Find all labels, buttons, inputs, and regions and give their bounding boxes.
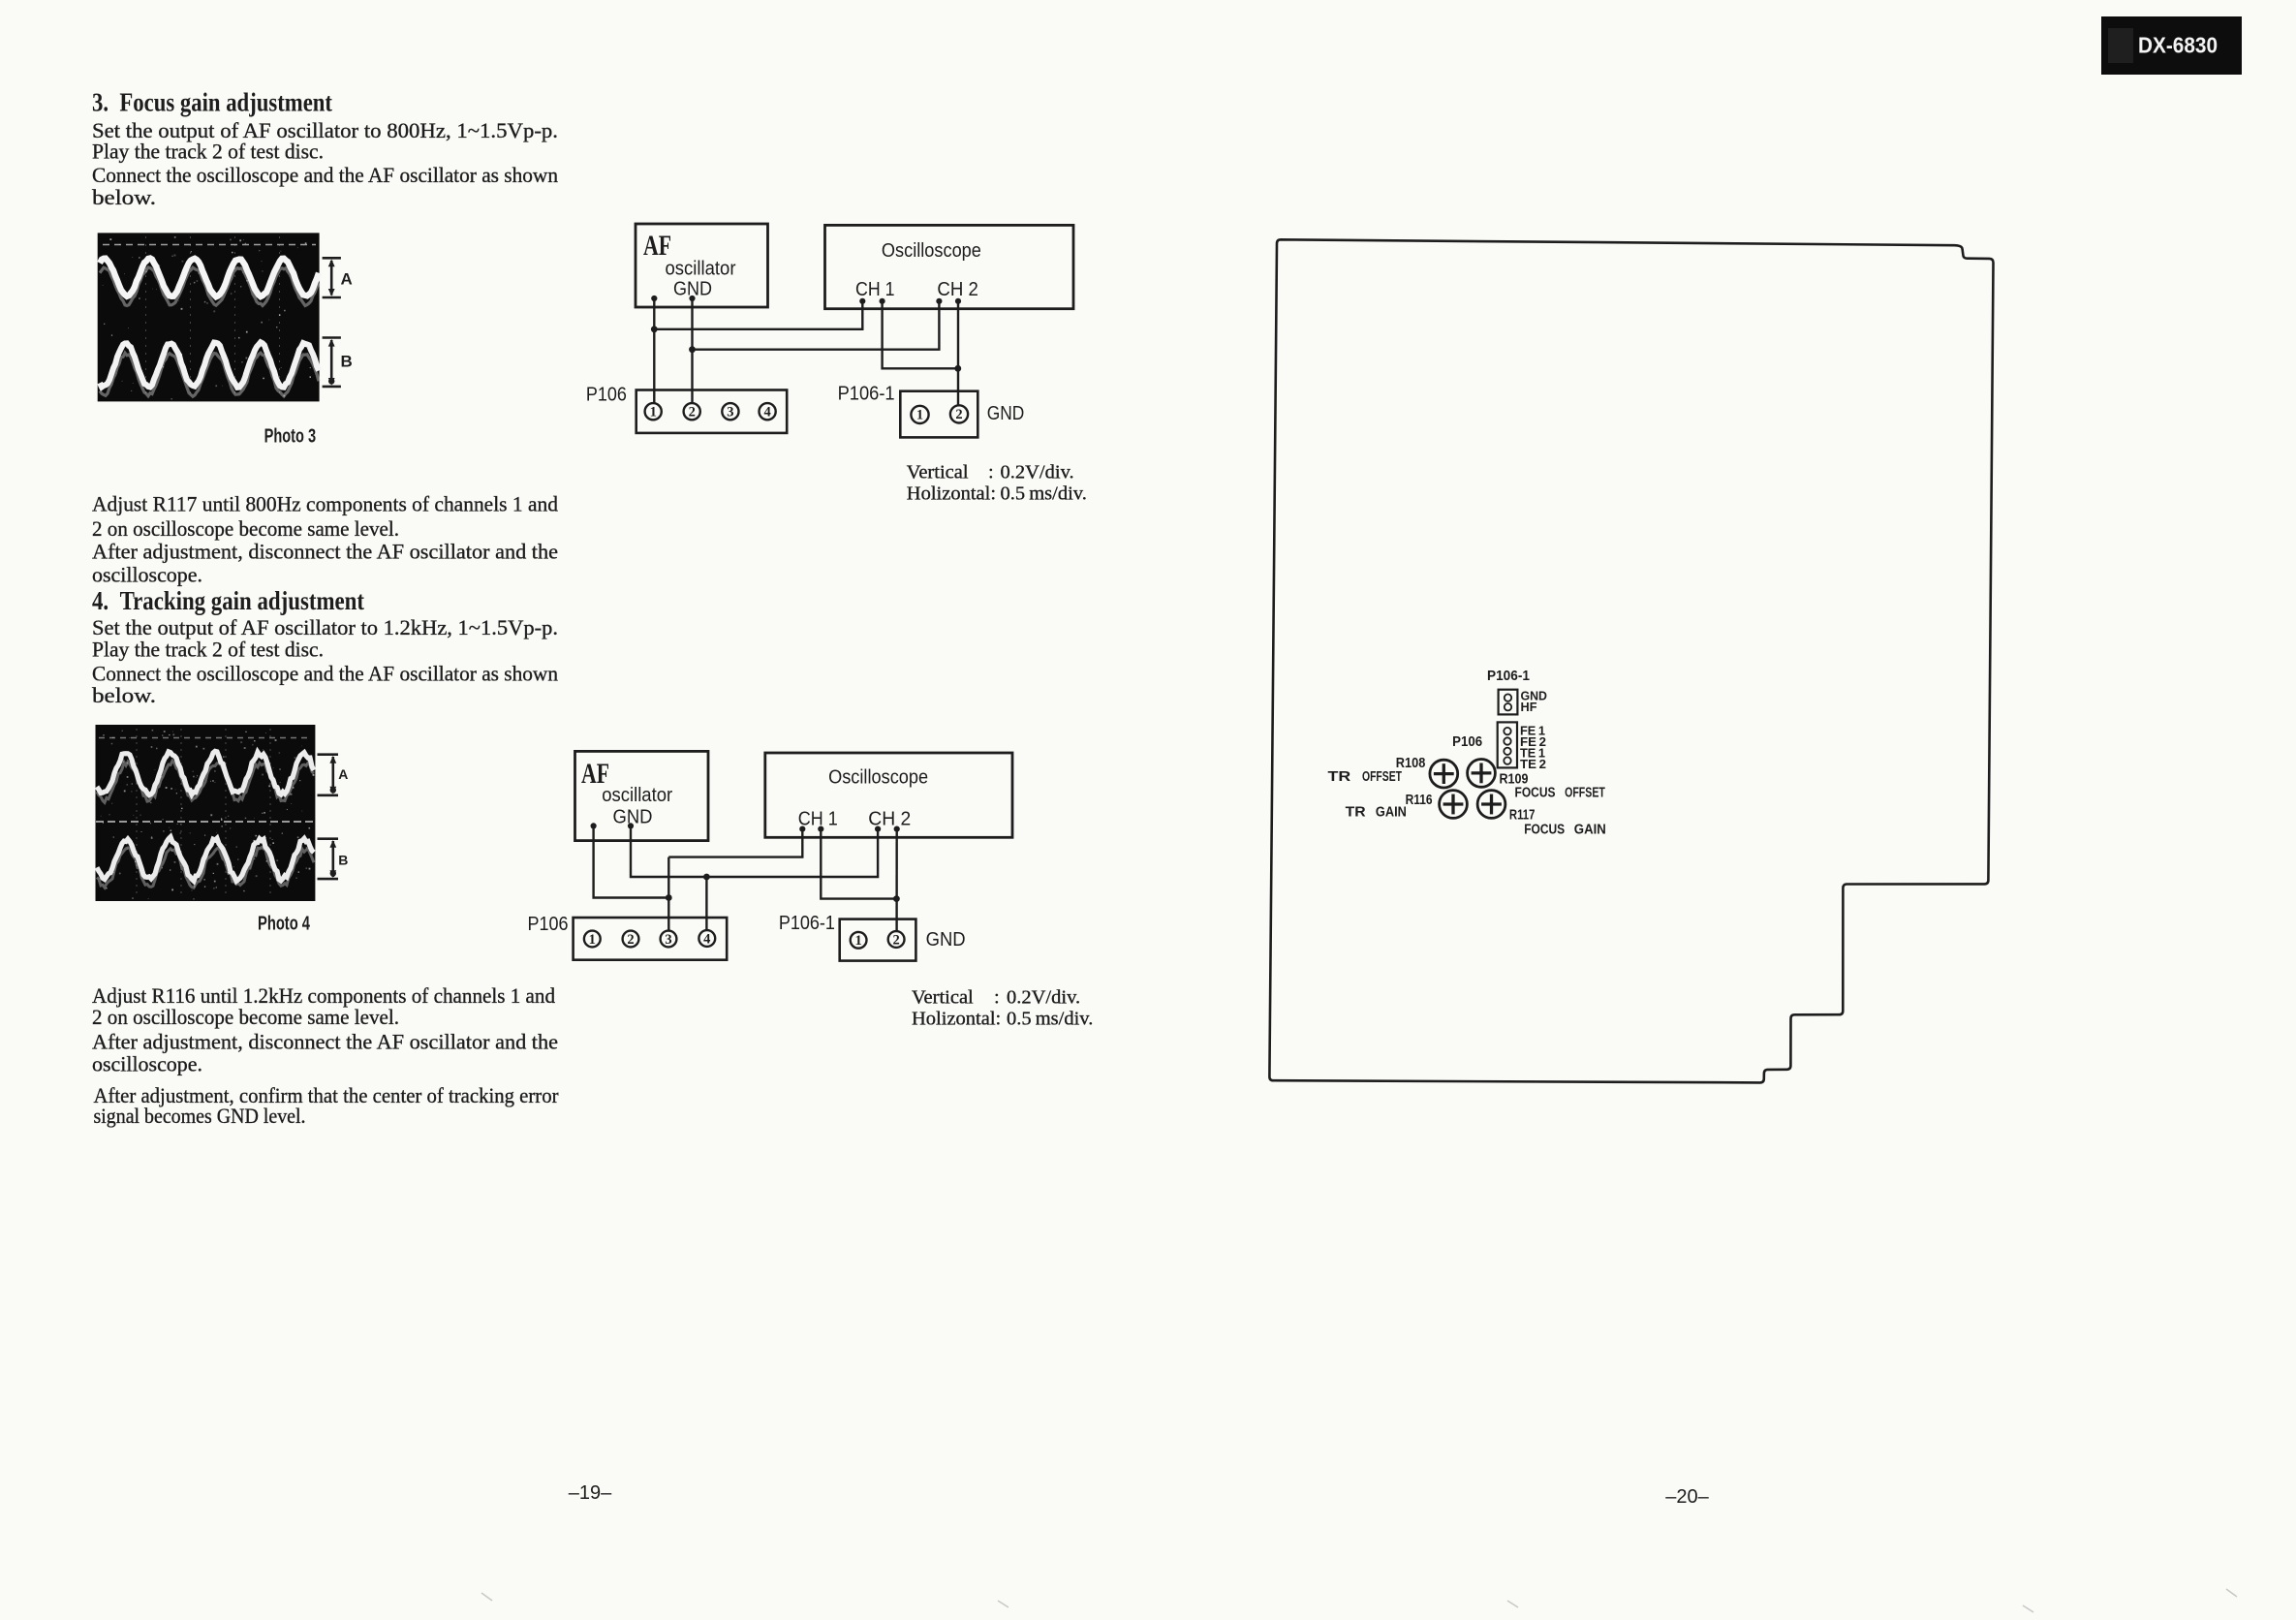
label FOCUS GAIN	[1524, 823, 1606, 838]
svg-text:1: 1	[589, 932, 596, 948]
svg-text:Oscilloscope: Oscilloscope	[882, 239, 981, 262]
svg-text:2 on oscilloscope become same: 2 on oscilloscope become same level.	[92, 1005, 399, 1029]
wire CH1 pin2 to junction (diagram 1)	[883, 301, 958, 369]
svg-text:Oscilloscope: Oscilloscope	[828, 766, 928, 789]
svg-text:4. Tracking gain adjustment: 4. Tracking gain adjustment	[92, 586, 364, 615]
svg-text:CH 2: CH 2	[937, 278, 978, 300]
svg-text:P106: P106	[1452, 734, 1482, 750]
svg-text:below.: below.	[92, 185, 156, 209]
settings text (diagram 2)	[912, 987, 1093, 1030]
svg-text:Vertical: Vertical	[907, 462, 969, 483]
svg-text:oscilloscope.: oscilloscope.	[92, 1052, 202, 1076]
svg-text:P106-1: P106-1	[1487, 669, 1530, 684]
wire AF GND to CH2 (diagram 2)	[631, 826, 878, 880]
svg-text:P106: P106	[586, 384, 627, 406]
svg-text::: :	[988, 462, 994, 483]
svg-text:2: 2	[892, 932, 899, 948]
svg-text:1: 1	[916, 408, 923, 423]
dimension bracket B photo 4	[318, 839, 339, 879]
svg-text:oscilloscope.: oscilloscope.	[92, 563, 202, 587]
label FOCUS OFFSET	[1515, 785, 1605, 800]
connector P106 (diagram 1)	[636, 390, 788, 433]
settings text (diagram 1)	[907, 462, 1087, 505]
wire riser to CH1 (diagram 2)	[668, 829, 802, 857]
svg-text:TR: TR	[1328, 769, 1351, 785]
svg-text:GAIN: GAIN	[1376, 805, 1407, 821]
svg-text:–19–: –19–	[569, 1482, 612, 1504]
Oscilloscope box (diagram 2)	[765, 753, 1012, 837]
svg-text:P106-1: P106-1	[779, 912, 835, 934]
scan marks	[481, 1589, 2237, 1612]
svg-text:4: 4	[763, 405, 770, 421]
svg-text:GAIN: GAIN	[1574, 823, 1606, 838]
svg-text:oscillator: oscillator	[666, 258, 736, 280]
connector P106-1 (board)	[1499, 690, 1518, 715]
svg-text:HF: HF	[1521, 700, 1537, 714]
connector P106 (diagram 2)	[574, 918, 728, 960]
svg-text:A: A	[341, 270, 353, 289]
svg-text:1: 1	[854, 933, 861, 949]
svg-text:0.2V/div.: 0.2V/div.	[1007, 987, 1080, 1009]
potentiometer R116 TR GAIN	[1440, 791, 1468, 819]
svg-text:Connect the oscilloscope and t: Connect the oscilloscope and the AF osci…	[92, 662, 558, 686]
AF oscillator box (diagram 1)	[636, 224, 768, 307]
svg-text:GND: GND	[987, 402, 1025, 424]
svg-text:Play the track 2 of test disc.: Play the track 2 of test disc.	[92, 140, 324, 164]
svg-text::: :	[994, 987, 1000, 1009]
svg-text:0.5 ms/div.: 0.5 ms/div.	[1007, 1009, 1093, 1030]
svg-text:FOCUS: FOCUS	[1524, 823, 1565, 838]
svg-text:P106: P106	[528, 913, 569, 935]
svg-text:3. Focus gain adjustment: 3. Focus gain adjustment	[92, 88, 332, 117]
potentiometer R109 FOCUS OFFSET	[1468, 760, 1496, 788]
wire junction to P106 pin4 (diagram 2)	[705, 877, 707, 930]
svg-text:1: 1	[650, 405, 657, 421]
wire CH1/P106 pin3 riser (diagram 2)	[666, 857, 672, 931]
svg-text:DX-6830: DX-6830	[2138, 33, 2218, 58]
AF oscillator box (diagram 2)	[575, 751, 709, 840]
wire AF pin1 to P106 pin1 (diagram 1)	[651, 298, 658, 403]
svg-text:Set the output of AF oscillato: Set the output of AF oscillator to 1.2kH…	[92, 615, 558, 639]
svg-text:Adjust R117 until 800Hz compon: Adjust R117 until 800Hz components of ch…	[92, 492, 558, 516]
wire CH1 pin2 to junction (diagram 2)	[821, 829, 896, 899]
svg-text:oscillator: oscillator	[602, 784, 672, 806]
svg-text:Holizontal:: Holizontal:	[907, 483, 996, 505]
svg-text:2: 2	[689, 405, 696, 421]
label TR OFFSET	[1328, 769, 1403, 785]
wire junction to CH1 (diagram 1)	[654, 301, 862, 329]
svg-text:R117: R117	[1509, 807, 1536, 823]
svg-text:GND: GND	[926, 928, 966, 950]
PCB board outline	[1269, 239, 1993, 1082]
svg-text:0.5 ms/div.: 0.5 ms/div.	[1001, 483, 1087, 505]
potentiometer R108 TR OFFSET	[1430, 760, 1458, 788]
dimension bracket A photo 4	[318, 755, 339, 795]
wire CH2 pin2 to P106-1 pin2 (diagram 1)	[954, 301, 961, 406]
svg-text:B: B	[341, 353, 353, 371]
wire AF pin1 to junction (diagram 2)	[594, 826, 669, 897]
svg-text:Photo 3: Photo 3	[264, 426, 317, 448]
wire CH2 pin2 to P106-1 pin2 (diagram 2)	[893, 829, 900, 931]
svg-text:signal becomes GND level.: signal becomes GND level.	[94, 1104, 306, 1128]
svg-text:–20–: –20–	[1665, 1486, 1709, 1508]
svg-text:CH 1: CH 1	[855, 278, 895, 300]
svg-text:2: 2	[627, 932, 634, 948]
svg-text:After adjustment, disconnect t: After adjustment, disconnect the AF osci…	[92, 1030, 558, 1054]
svg-text:Holizontal:: Holizontal:	[912, 1009, 1001, 1030]
svg-text:FOCUS: FOCUS	[1515, 785, 1556, 800]
svg-text:0.2V/div.: 0.2V/div.	[1001, 462, 1074, 483]
Oscilloscope box (diagram 1)	[825, 225, 1074, 308]
svg-text:4: 4	[703, 931, 710, 947]
svg-text:TE 2: TE 2	[1520, 757, 1546, 771]
model badge DX-6830	[2101, 16, 2242, 75]
svg-text:TR: TR	[1346, 805, 1367, 821]
svg-text:below.: below.	[92, 683, 156, 707]
connector P106 (board)	[1498, 722, 1517, 767]
photo 3 oscillogram	[98, 233, 320, 401]
photo 4 oscillogram	[96, 725, 316, 901]
wire AF GND pin2 to P106 pin2 (diagram 1)	[689, 298, 696, 403]
svg-text:A: A	[338, 766, 348, 782]
svg-text:R116: R116	[1406, 793, 1433, 808]
svg-text:B: B	[338, 853, 348, 868]
svg-text:Play the track 2 of test disc.: Play the track 2 of test disc.	[92, 638, 324, 662]
svg-text:OFFSET: OFFSET	[1362, 769, 1402, 785]
svg-text:3: 3	[665, 932, 671, 948]
dimension bracket A photo 3	[323, 258, 341, 297]
svg-text:2: 2	[955, 407, 962, 422]
label TR GAIN	[1346, 805, 1407, 821]
svg-text:2 on oscilloscope become same: 2 on oscilloscope become same level.	[92, 516, 399, 541]
svg-text:Connect the oscilloscope and t: Connect the oscilloscope and the AF osci…	[92, 163, 558, 187]
svg-text:Vertical: Vertical	[912, 987, 974, 1009]
connector P106-1 (diagram 2)	[840, 919, 916, 961]
svg-text:Photo 4: Photo 4	[258, 914, 311, 935]
svg-text:CH 2: CH 2	[868, 808, 911, 830]
svg-text:After adjustment, disconnect t: After adjustment, disconnect the AF osci…	[92, 540, 558, 564]
potentiometer R117 FOCUS GAIN	[1477, 791, 1505, 819]
wire junction to CH2 (diagram 1)	[693, 301, 940, 350]
svg-text:OFFSET: OFFSET	[1565, 785, 1605, 800]
svg-text:3: 3	[727, 405, 733, 421]
connector P106-1 (diagram 1)	[900, 391, 977, 438]
svg-text:P106-1: P106-1	[838, 383, 895, 405]
dimension bracket B photo 3	[323, 338, 341, 387]
